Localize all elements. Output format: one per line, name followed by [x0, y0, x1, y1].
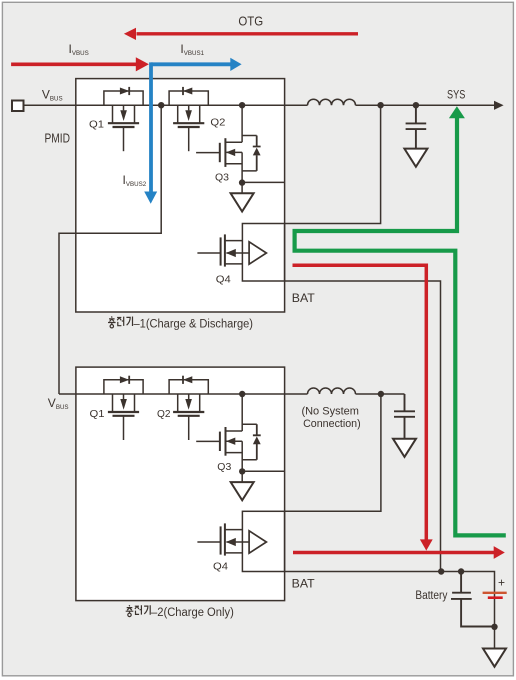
svg-text:–2(Charge Only): –2(Charge Only)	[151, 607, 234, 619]
node BAT dot 2	[458, 568, 464, 574]
ground	[483, 649, 506, 667]
transistor Q4 charger2	[197, 523, 266, 555]
transistor Q1 charger2	[104, 376, 143, 440]
label charger2 caption hangul	[126, 605, 151, 617]
node SW dot	[377, 102, 383, 108]
SYS arrowhead	[494, 101, 504, 110]
wire riser to charger 2	[59, 105, 161, 394]
svg-text:PMID: PMID	[45, 131, 71, 146]
capacitor battery model	[451, 572, 495, 627]
transistor Q3 charger2	[196, 394, 284, 500]
arrow IVBUS red	[11, 63, 136, 67]
svg-text:BAT: BAT	[292, 577, 316, 591]
svg-text:Q3: Q3	[217, 461, 231, 473]
svg-text:Q1: Q1	[90, 408, 105, 420]
node PMID dot	[158, 102, 164, 108]
wire VBUS main bus charger 2	[59, 393, 308, 395]
node SYS cap dot	[413, 102, 419, 108]
path red charge 2	[293, 551, 494, 555]
transistor Q1	[104, 87, 143, 151]
charger box 2	[76, 367, 285, 600]
svg-text:Q4: Q4	[216, 274, 231, 286]
block Q4 rect charger2	[242, 511, 284, 571]
svg-text:SYS: SYS	[447, 87, 465, 101]
path red charge 1	[293, 265, 427, 540]
inductor L2	[308, 388, 356, 394]
path green discharge	[295, 118, 506, 536]
wire BAT 2	[285, 572, 495, 649]
svg-text:Q3: Q3	[215, 171, 229, 183]
terminal VBUS square	[12, 101, 24, 112]
wire to cap 2	[356, 393, 405, 395]
arrow IVBUS1 blue	[151, 62, 231, 66]
transistor Q2	[169, 87, 208, 151]
node dot after Q2 charger2	[239, 391, 245, 397]
svg-text:Q2: Q2	[210, 116, 225, 128]
node after Q2 dot	[239, 102, 245, 108]
svg-text:Battery: Battery	[415, 590, 447, 602]
transistor Q2 charger2	[169, 376, 208, 440]
arrow OTG red	[137, 32, 359, 35]
label charger1 caption hangul	[108, 316, 133, 328]
wire BAT 1	[285, 281, 441, 572]
svg-text:Q4: Q4	[213, 561, 228, 573]
charger box 1	[76, 79, 285, 312]
wire loop back 2	[285, 394, 381, 511]
svg-text:Q2: Q2	[157, 408, 171, 420]
svg-text:BAT: BAT	[292, 291, 316, 305]
transistor Q3	[196, 105, 284, 211]
block Q4 rect	[242, 224, 284, 282]
node battery gnd dot	[491, 624, 497, 630]
inductor L1	[308, 99, 356, 105]
node BAT dot 1	[438, 568, 444, 574]
ground	[393, 439, 416, 457]
node SW2 dot	[378, 391, 384, 397]
wire SYS sense	[285, 105, 381, 223]
svg-text:Connection): Connection)	[303, 418, 361, 430]
wire VBUS main bus charger 1	[24, 104, 308, 106]
battery cell plus plate	[483, 592, 507, 594]
capacitor C1	[406, 105, 427, 148]
svg-text:OTG: OTG	[238, 13, 263, 28]
arrow IVBUS2 blue	[149, 62, 153, 192]
capacitor C2	[394, 394, 415, 439]
battery cell minus plate	[488, 596, 503, 599]
transistor Q4	[197, 234, 266, 266]
svg-text:–1(Charge & Discharge): –1(Charge & Discharge)	[134, 318, 254, 330]
svg-text:Q1: Q1	[89, 118, 104, 130]
svg-text:+: +	[498, 575, 505, 589]
wire SYS	[356, 104, 496, 106]
svg-text:(No System: (No System	[301, 406, 359, 418]
ground	[404, 149, 427, 167]
